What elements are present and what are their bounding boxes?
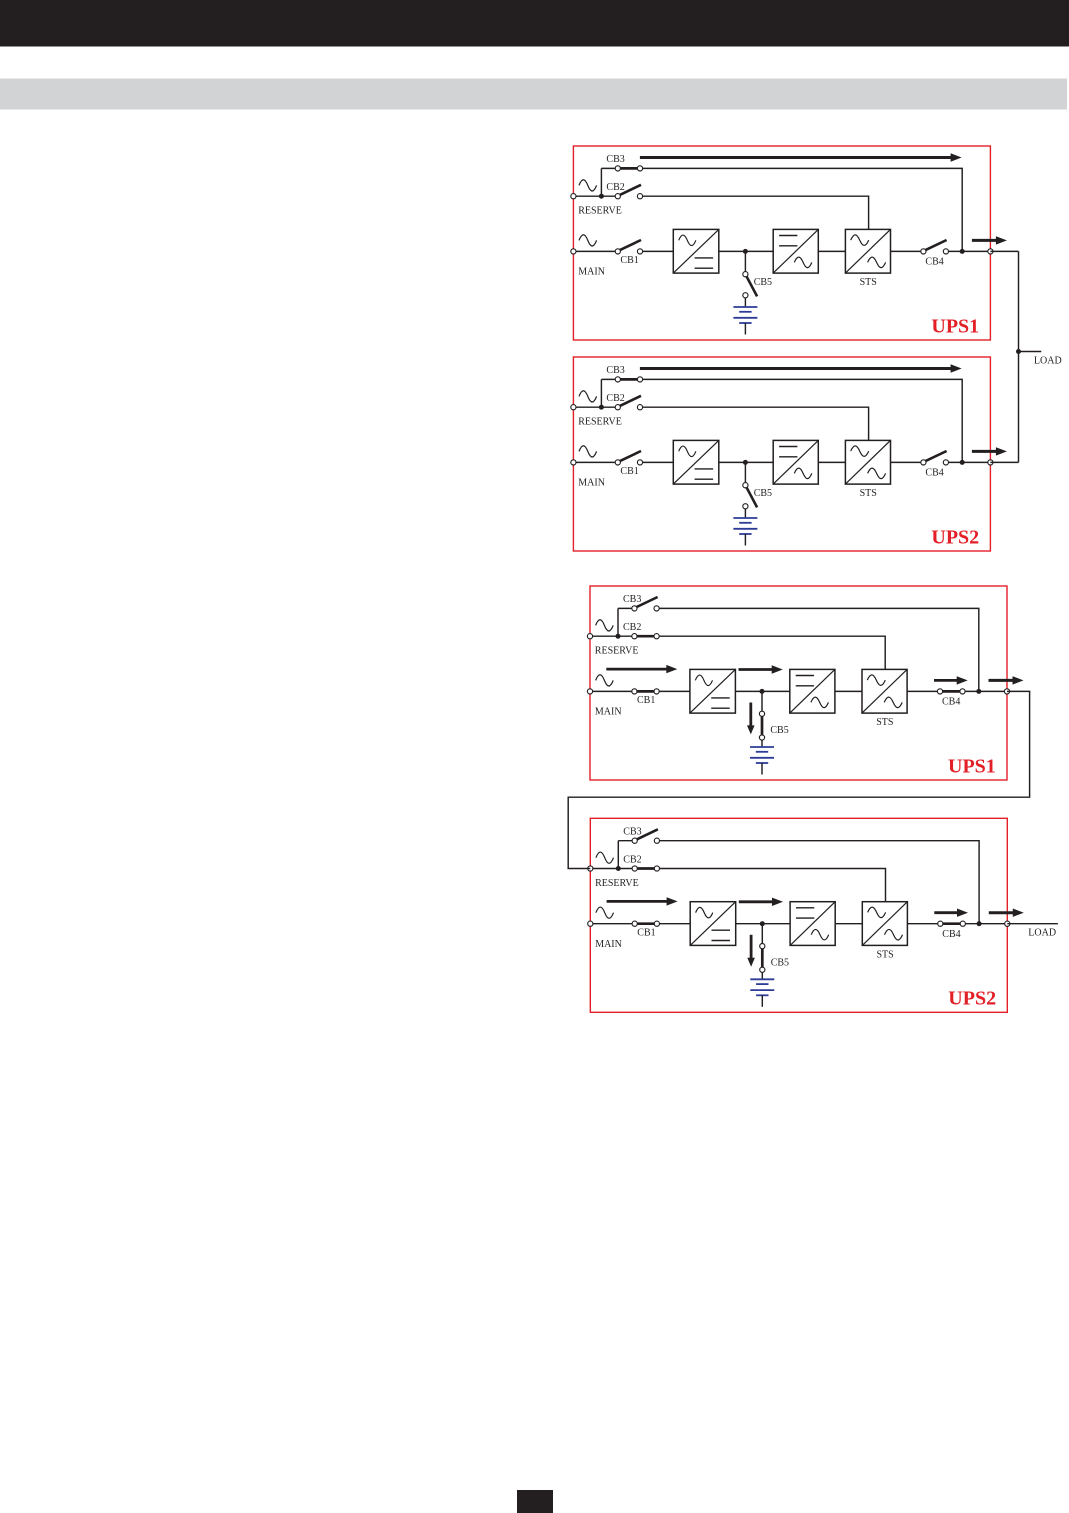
rectifier (AC/DC converter, UPS2): [690, 902, 735, 946]
wire: CB5 to battery: [744, 509, 746, 518]
wire: STS to CB4: [891, 250, 924, 252]
breaker CB4 (closed): [942, 690, 964, 693]
breaker CB3 (closed): [619, 167, 641, 170]
svg-text:RESERVE: RESERVE: [578, 417, 622, 428]
inverter (DC/AC converter, UPS1): [773, 229, 818, 273]
svg-text:CB3: CB3: [623, 594, 641, 605]
static transfer switch STS (UPS1): [862, 669, 907, 713]
terminal: UPS1 output: [988, 249, 993, 254]
svg-text:RESERVE: RESERVE: [578, 206, 622, 217]
wire: battery negative lead: [761, 763, 763, 775]
svg-text:CB5: CB5: [754, 277, 772, 288]
terminal: RESERVE input: [571, 194, 576, 199]
breaker CB4 (open): [924, 240, 946, 251]
power-flow arrow MAIN input (UPS1): [606, 668, 668, 671]
AC source symbol (RESERVE): [596, 620, 614, 631]
svg-text:UPS1: UPS1: [931, 315, 979, 337]
svg-text:MAIN: MAIN: [595, 939, 622, 950]
page header bar: [0, 0, 1069, 47]
wire: RESERVE input to CB2: [590, 868, 634, 870]
svg-text:CB3: CB3: [623, 827, 641, 838]
breaker CB2 (closed): [636, 635, 658, 638]
wire: MAIN input to CB1: [573, 461, 617, 463]
static transfer switch STS (UPS1): [845, 229, 890, 273]
svg-text:LOAD: LOAD: [1034, 356, 1062, 367]
battery charge flow arrow (UPS1): [749, 703, 752, 727]
figure 1: two UPS in parallel, bypass power flow: [571, 146, 1007, 340]
wire: CB3 to output node (bypass rail): [640, 379, 962, 462]
AC source symbol (RESERVE): [579, 180, 597, 191]
terminal: RESERVE input: [588, 866, 593, 871]
power-flow arrow UPS1 output: [972, 239, 998, 242]
breaker CB3 (open): [635, 597, 657, 608]
wire: RESERVE node to CB3: [618, 607, 634, 609]
power-flow arrow through CB4 (UPS1): [934, 679, 958, 682]
static transfer switch STS (UPS2): [862, 902, 907, 946]
svg-text:CB5: CB5: [754, 488, 772, 499]
svg-text:CB3: CB3: [606, 365, 624, 376]
node: RESERVE junction: [616, 866, 621, 871]
svg-text:STS: STS: [860, 277, 877, 288]
wire: battery negative lead: [744, 534, 746, 546]
breaker CB5 (closed): [761, 716, 764, 736]
svg-text:CB5: CB5: [770, 725, 788, 736]
inverter (DC/AC converter, UPS2): [790, 902, 835, 946]
battery (UPS1): [750, 746, 774, 748]
svg-text:RESERVE: RESERVE: [595, 646, 639, 657]
wire: STS to CB4: [907, 690, 940, 692]
wire: STS to CB4: [891, 461, 924, 463]
svg-text:CB3: CB3: [606, 154, 624, 165]
terminal: UPS2 output: [1005, 921, 1010, 926]
terminal: UPS1 output: [1004, 689, 1009, 694]
node: load junction: [1016, 349, 1021, 354]
static transfer switch STS (UPS2): [845, 440, 890, 484]
breaker CB3 (open): [636, 829, 658, 840]
breaker CB5 (open): [746, 275, 757, 296]
terminal: RESERVE input: [571, 405, 576, 410]
wire: inverter to STS: [818, 250, 845, 252]
wire: CB2 to STS bypass input: [640, 196, 869, 229]
power-flow arrow along bypass rail (UPS1): [640, 156, 952, 159]
UPS2 enclosure (red frame): [573, 357, 990, 551]
svg-text:CB5: CB5: [771, 957, 789, 968]
power-flow arrow rectifier to inverter (UPS1): [739, 668, 774, 671]
wire: UPS1 output to common load bus: [990, 250, 1018, 252]
wire: DC bus to battery breaker CB5: [761, 691, 763, 711]
wire: DC bus to battery breaker CB5: [744, 251, 746, 272]
wire: CB3 to output node (bypass rail): [657, 608, 979, 691]
wire: rectifier to inverter (DC bus): [719, 461, 773, 463]
wire: CB2 to STS bypass input: [657, 869, 886, 902]
wire: MAIN input to CB1: [590, 690, 634, 692]
wire: CB1 to rectifier: [640, 461, 673, 463]
terminal: MAIN input: [571, 249, 576, 254]
svg-text:STS: STS: [877, 949, 894, 960]
svg-text:CB4: CB4: [925, 468, 943, 479]
svg-text:CB1: CB1: [620, 255, 638, 266]
wire: RESERVE input to CB2: [573, 406, 617, 408]
terminal: MAIN input: [571, 460, 576, 465]
wire: CB1 to rectifier: [657, 923, 690, 925]
node: DC bus junction: [743, 460, 748, 465]
svg-text:MAIN: MAIN: [578, 267, 605, 278]
breaker CB1 (closed): [636, 690, 658, 693]
breaker CB2 (open): [619, 185, 641, 196]
figure 2: hot-standby chain, normal power flow: [587, 586, 1023, 780]
UPS1 enclosure (red frame): [590, 586, 1007, 780]
node: output junction: [976, 689, 981, 694]
section title bar: [0, 79, 1067, 110]
svg-text:RESERVE: RESERVE: [595, 878, 639, 889]
node: RESERVE junction: [616, 634, 621, 639]
svg-text:CB4: CB4: [942, 697, 960, 708]
battery (UPS1): [733, 306, 757, 308]
wire: STS to CB4: [907, 923, 940, 925]
wire: CB4 to output terminal: [963, 923, 1008, 925]
wire: CB3 to output node (bypass rail): [640, 168, 962, 251]
wire: CB4 to output terminal: [946, 461, 991, 463]
svg-text:CB4: CB4: [925, 257, 943, 268]
inverter (DC/AC converter, UPS2): [773, 440, 818, 484]
wire: load bus stub: [1019, 351, 1042, 353]
node: DC bus junction: [743, 249, 748, 254]
wire: CB2 to STS bypass input: [657, 636, 886, 669]
wire: rectifier to inverter (DC bus): [735, 690, 789, 692]
battery (UPS2): [733, 517, 757, 519]
wire: RESERVE input to CB2: [573, 195, 617, 197]
svg-text:CB2: CB2: [606, 182, 624, 193]
terminal: RESERVE input: [587, 634, 592, 639]
wire: CB3 branch riser from RESERVE node: [600, 379, 602, 407]
terminal: MAIN input: [588, 921, 593, 926]
svg-text:UPS2: UPS2: [931, 526, 979, 548]
power-flow arrow MAIN input (UPS2): [607, 900, 669, 903]
node: RESERVE junction: [599, 194, 604, 199]
wire: inverter to STS: [835, 690, 862, 692]
wire: CB3 to output node (bypass rail): [657, 841, 979, 924]
svg-text:STS: STS: [876, 717, 893, 728]
wire: inverter to STS: [835, 923, 862, 925]
rectifier (AC/DC converter, UPS1): [673, 229, 719, 273]
power-flow arrow UPS2 output: [972, 450, 998, 453]
svg-text:UPS1: UPS1: [948, 755, 996, 777]
node: output junction: [960, 460, 965, 465]
inverter (DC/AC converter, UPS1): [790, 669, 835, 713]
AC source symbol (MAIN): [596, 907, 614, 918]
breaker CB5 (closed): [761, 948, 764, 968]
svg-text:CB2: CB2: [606, 393, 624, 404]
svg-text:CB1: CB1: [620, 466, 638, 477]
svg-text:CB1: CB1: [637, 927, 655, 938]
wire: CB1 to rectifier: [657, 690, 690, 692]
page number block: [517, 1490, 553, 1513]
breaker CB2 (closed): [636, 867, 658, 870]
node: RESERVE junction: [599, 405, 604, 410]
breaker CB1 (open): [619, 451, 641, 462]
power-flow arrow along bypass rail (UPS2): [640, 367, 952, 370]
breaker CB2 (open): [619, 396, 641, 407]
wire: CB5 to battery: [761, 740, 763, 747]
wire: DC bus to battery breaker CB5: [744, 462, 746, 483]
wire: CB5 to battery: [744, 298, 746, 307]
svg-text:LOAD: LOAD: [1028, 928, 1056, 939]
wire: CB2 to STS bypass input: [640, 407, 869, 440]
wire: DC bus to battery breaker CB5: [761, 924, 763, 944]
rectifier (AC/DC converter, UPS2): [673, 440, 719, 484]
wire: battery negative lead: [744, 323, 746, 335]
breaker CB4 (open): [924, 451, 946, 462]
AC source symbol (RESERVE): [579, 391, 597, 402]
power-flow arrow UPS2 output: [989, 911, 1015, 914]
svg-text:STS: STS: [860, 488, 877, 499]
wire: rectifier to inverter (DC bus): [719, 250, 773, 252]
breaker CB4 (closed): [942, 922, 964, 925]
wire: CB4 to output terminal: [946, 250, 991, 252]
breaker CB1 (open): [619, 240, 641, 251]
wire: CB4 to output terminal: [963, 690, 1008, 692]
power-flow arrow rectifier to inverter (UPS2): [739, 900, 774, 903]
battery charge flow arrow (UPS2): [750, 935, 753, 959]
battery (UPS2): [750, 978, 774, 980]
node: DC bus junction: [760, 921, 765, 926]
svg-text:CB4: CB4: [942, 929, 960, 940]
svg-text:CB2: CB2: [623, 622, 641, 633]
terminal: MAIN input: [587, 689, 592, 694]
wire: RESERVE node to CB3: [601, 167, 617, 169]
wire: CB3 branch riser from RESERVE node: [617, 841, 619, 869]
node: output junction: [960, 249, 965, 254]
wire: UPS2 output to load: [1007, 923, 1058, 925]
AC source symbol (MAIN): [579, 235, 597, 246]
UPS1 enclosure (red frame): [573, 146, 990, 340]
AC source symbol (MAIN): [596, 675, 614, 686]
wire: battery negative lead: [761, 995, 763, 1007]
power-flow arrow through CB4 (UPS2): [934, 911, 958, 914]
breaker CB1 (closed): [636, 922, 658, 925]
wire: rectifier to inverter (DC bus): [736, 923, 790, 925]
breaker CB5 (open): [746, 486, 757, 507]
node: output junction: [977, 921, 982, 926]
wire: RESERVE node to CB3: [618, 840, 634, 842]
wire: CB3 branch riser from RESERVE node: [600, 168, 602, 196]
wire: MAIN input to CB1: [573, 250, 617, 252]
svg-text:MAIN: MAIN: [595, 707, 622, 718]
AC source symbol (MAIN): [579, 446, 597, 457]
wire: RESERVE input to CB2: [590, 635, 634, 637]
UPS2 enclosure (red frame): [590, 818, 1007, 1012]
wire: common load bus (vertical): [1018, 251, 1020, 462]
breaker CB3 (closed): [619, 378, 641, 381]
svg-text:CB1: CB1: [637, 695, 655, 706]
wire: inverter to STS: [818, 461, 845, 463]
svg-text:MAIN: MAIN: [578, 478, 605, 489]
AC source symbol (RESERVE): [596, 852, 614, 863]
svg-text:UPS2: UPS2: [948, 988, 996, 1010]
wire: UPS1 output routed to UPS2 reserve input: [568, 691, 1029, 868]
wire: MAIN input to CB1: [590, 923, 634, 925]
terminal: UPS2 output: [988, 460, 993, 465]
node: DC bus junction: [760, 689, 765, 694]
wire: RESERVE node to CB3: [601, 378, 617, 380]
rectifier (AC/DC converter, UPS1): [690, 669, 736, 713]
power-flow arrow UPS1 output: [989, 679, 1015, 682]
wire: CB5 to battery: [761, 972, 763, 979]
wire: UPS2 output to common load bus: [990, 461, 1018, 463]
svg-text:CB2: CB2: [623, 855, 641, 866]
wire: CB1 to rectifier: [640, 250, 673, 252]
wire: CB3 branch riser from RESERVE node: [617, 608, 619, 636]
